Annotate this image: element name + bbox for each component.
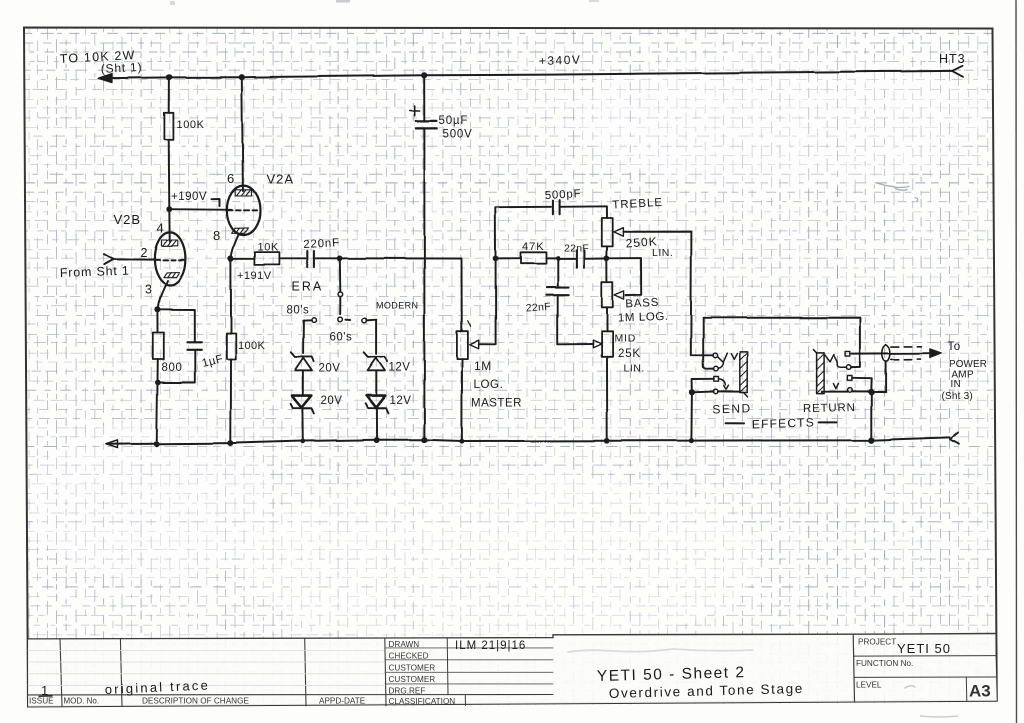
node mid ground — [604, 438, 610, 444]
tube V2B cathode scribble — [163, 272, 179, 277]
zener D2 bar — [291, 404, 314, 414]
send jack sq terminal — [714, 377, 719, 382]
svg-text:100K: 100K — [238, 340, 266, 352]
svg-text:CUSTOMER: CUSTOMER — [389, 664, 436, 673]
era switch pole line — [339, 297, 341, 314]
wire send ring feed — [703, 318, 713, 369]
svg-text:To: To — [948, 341, 961, 353]
svg-text:MID: MID — [615, 333, 637, 345]
tube V2B anode scribble — [162, 240, 178, 246]
svg-text:20V: 20V — [319, 363, 341, 375]
svg-text:CUSTOMER: CUSTOMER — [389, 675, 436, 684]
return jack ring terminal — [847, 365, 852, 370]
wire output sleeve down — [886, 361, 888, 391]
ground rail left arrow — [106, 440, 118, 448]
svg-text:100K: 100K — [177, 119, 205, 131]
capacitor 22nF shunt plates — [546, 287, 568, 295]
HT rail left arrow — [99, 74, 113, 83]
svg-text:RETURN: RETURN — [803, 402, 856, 415]
output jack plug — [883, 344, 891, 361]
zener D4 bar — [365, 404, 388, 414]
input chevron — [104, 254, 114, 265]
grid fade patches — [240, 470, 760, 650]
return jack bar tail — [813, 350, 816, 354]
era switch right terminal — [362, 318, 367, 323]
capacitor 220nF plates — [307, 251, 314, 267]
svg-text:DRAWN: DRAWN — [389, 640, 420, 649]
node return ground — [869, 388, 875, 394]
resistor 10K — [255, 252, 280, 264]
tube V2A grid dashes — [228, 209, 259, 211]
send jack ring hook — [718, 363, 723, 368]
svg-text:12V: 12V — [389, 362, 411, 374]
svg-text:MOD. No.: MOD. No. — [64, 697, 100, 706]
wire node to resistor 10K — [231, 257, 255, 259]
svg-text:8: 8 — [213, 228, 220, 243]
wire 1uF bottom loop — [158, 350, 194, 383]
wire input from Sht1 — [114, 258, 155, 260]
svg-text:500V: 500V — [443, 129, 473, 141]
tube V2B envelope — [154, 232, 185, 285]
wire return sq to ground node — [852, 378, 872, 392]
output arrow head — [930, 349, 942, 358]
wire send sleeve to bar — [718, 390, 740, 392]
resistor 100K cathode V2A — [226, 334, 235, 360]
wire D2 to ground — [301, 408, 303, 441]
svg-text:A3: A3 — [969, 682, 991, 701]
send jack sleeve terminal — [713, 389, 718, 394]
capacitor 50uF plus sign — [410, 106, 420, 116]
return jack ring hook — [838, 365, 847, 367]
190V pointer mark — [212, 199, 220, 206]
svg-text:MASTER: MASTER — [471, 398, 522, 410]
svg-text:6: 6 — [227, 171, 234, 186]
svg-text:+190V: +190V — [171, 191, 207, 203]
zener D1 triangle 20V — [295, 358, 312, 371]
wire 47K to 22nF — [546, 257, 576, 259]
tube V2B grid dashes — [155, 259, 185, 261]
resistor 100K anode V2B — [164, 112, 173, 139]
svg-text:V2B: V2B — [114, 212, 142, 227]
wire 50uF to ground — [423, 128, 425, 439]
svg-text:60's: 60's — [330, 332, 353, 344]
wire master pot top — [461, 259, 463, 332]
node ground 100K — [228, 440, 234, 446]
node 800-1uF bottom — [155, 380, 161, 386]
capacitor 22nF series plates — [577, 250, 585, 267]
svg-text:220nF: 220nF — [303, 237, 340, 251]
wire node to resistor 800 — [156, 309, 158, 332]
ground rail right arrow — [950, 433, 959, 444]
left table column dividers — [60, 638, 386, 706]
svg-text:POWER: POWER — [949, 359, 987, 370]
send jack arm V mark — [731, 354, 737, 360]
send jack body hatched bar — [740, 352, 747, 393]
tube V2A cathode scribble — [232, 228, 248, 233]
node cathode V2B — [154, 306, 160, 312]
capacitor 1uF plates — [187, 342, 201, 350]
mid wiper arrow — [593, 340, 602, 348]
effects dash right — [819, 421, 837, 423]
svg-text:LEVEL: LEVEL — [856, 681, 882, 690]
wire 10K to 220nF — [279, 257, 305, 259]
paper right edge line — [1015, 0, 1018, 723]
era switch centre dash — [345, 318, 350, 320]
wire D1-D2 — [302, 370, 304, 395]
svg-text:+340V: +340V — [539, 53, 582, 68]
svg-text:YETI 50: YETI 50 — [897, 641, 951, 656]
wire 100K cathode to ground — [230, 360, 232, 444]
drawn box row lines — [385, 648, 553, 684]
wire left throw to zeners — [303, 320, 311, 353]
node 190V junction — [166, 206, 172, 212]
potentiometer treble 250K body — [602, 218, 613, 246]
svg-text:ILM 21|9|16: ILM 21|9|16 — [455, 640, 526, 652]
wire D4 to ground — [375, 408, 377, 440]
wire send ground branch — [692, 379, 714, 393]
zener D3 triangle 12V — [368, 358, 385, 371]
zener D4 triangle 12V — [366, 396, 385, 408]
project row divider — [853, 655, 995, 658]
wire tone node down to bass pot — [606, 258, 608, 282]
white cover below bottom border — [24, 702, 1014, 723]
title block background — [28, 634, 997, 707]
treble wiper arrow — [614, 228, 624, 237]
svg-text:25K: 25K — [618, 348, 641, 360]
send jack sq switch arm — [719, 379, 726, 385]
return jack body hatched bar — [817, 353, 825, 394]
tube V2A envelope — [227, 186, 260, 235]
wire send sleeve stub — [692, 391, 714, 394]
wire tone node to bass loop — [607, 258, 642, 295]
svg-text:SEND: SEND — [712, 401, 752, 416]
wire V2A cathode down — [231, 235, 239, 259]
tube V2A anode scribble — [235, 190, 251, 196]
svg-text:BASS: BASS — [625, 297, 659, 311]
svg-text:IN: IN — [951, 379, 962, 390]
wire V2A plate from rail — [242, 77, 243, 191]
send jack bar tail — [744, 393, 748, 397]
potentiometer mid 25K body — [602, 331, 613, 357]
wire 22nF to tone node — [585, 257, 605, 259]
centre box right divider — [853, 634, 854, 702]
wire master wiper — [479, 259, 496, 344]
faint pencil scribble upper right — [877, 183, 918, 201]
A3 box divider — [965, 677, 968, 701]
svg-text:V2A: V2A — [267, 172, 295, 187]
wire bass to mid pot — [606, 307, 608, 331]
svg-text:CLASSIFICATION: CLASSIFICATION — [389, 697, 456, 706]
wire treble bottom — [606, 246, 608, 257]
svg-text:LIN.: LIN. — [624, 363, 645, 375]
drawn box value divider — [446, 638, 449, 695]
wire rail to resistor 100K — [168, 77, 170, 112]
node rail-50uF — [421, 72, 427, 78]
send jack v arrow — [724, 385, 729, 389]
wire to capacitor 1uF top — [157, 309, 194, 342]
wire return sleeve to jack — [852, 390, 886, 392]
left table label row line — [28, 694, 553, 696]
node zener right ground — [374, 437, 380, 443]
node 22nF shunt tap — [556, 256, 561, 261]
node rail-V2A — [239, 74, 245, 80]
wire 50uF from rail — [423, 75, 425, 121]
svg-text:(Sht 3): (Sht 3) — [942, 391, 973, 402]
svg-text:From Sht 1: From Sht 1 — [60, 264, 130, 280]
potentiometer master 1M body — [457, 331, 468, 358]
svg-text:4: 4 — [157, 221, 164, 236]
ground rail wire — [107, 437, 950, 444]
classification tick — [464, 696, 466, 706]
svg-text:LOG.: LOG. — [474, 379, 504, 391]
faint level scribble — [905, 686, 915, 688]
title block top line centre/right — [553, 634, 995, 638]
return jack tip terminal — [846, 351, 851, 356]
svg-text:22nF: 22nF — [564, 243, 589, 255]
svg-text:PROJECT: PROJECT — [858, 638, 896, 647]
bass wiper arrow — [615, 290, 625, 298]
capacitor 50uF plates — [416, 121, 437, 128]
svg-text:FUNCTION No.: FUNCTION No. — [856, 659, 913, 668]
svg-text:1M: 1M — [474, 359, 492, 373]
svg-text:500pF: 500pF — [545, 188, 582, 202]
era switch centre terminal — [338, 317, 343, 322]
svg-text:HT3: HT3 — [939, 52, 966, 66]
wire return tip to output — [852, 352, 931, 354]
node rail-100K — [166, 74, 172, 80]
zener D2 triangle 20V — [292, 396, 312, 408]
master pot top tick — [468, 321, 471, 326]
wire 220nF to master corner — [314, 257, 462, 259]
HT rail +340V wire — [112, 71, 953, 78]
svg-text:MODERN: MODERN — [376, 301, 418, 311]
svg-text:800: 800 — [162, 362, 183, 374]
node cathode V2A — [228, 255, 234, 261]
wire V2B plate — [168, 209, 170, 241]
node 50uF ground — [421, 437, 427, 443]
faint smudge top margin — [336, 0, 350, 3]
wire 500pF to treble top — [560, 206, 607, 218]
wire return sleeve bottom — [822, 392, 848, 394]
wire shunt 22nF drop — [557, 258, 559, 287]
wire node to V2A grid — [169, 208, 231, 211]
wire mid pot to ground — [606, 357, 608, 441]
svg-text:10K: 10K — [258, 242, 279, 254]
svg-text:22nF: 22nF — [525, 301, 551, 315]
HT rail right arrow HT3 — [952, 66, 963, 77]
faint stamp in centre box — [568, 649, 753, 652]
svg-text:47K: 47K — [522, 241, 545, 253]
svg-text:DESCRIPTION OF CHANGE: DESCRIPTION OF CHANGE — [142, 697, 249, 706]
output dashed line lower — [892, 358, 921, 360]
node effects ground left — [689, 438, 694, 443]
svg-text:ERA: ERA — [292, 280, 324, 294]
output dashed line upper — [892, 345, 922, 347]
wire shunt 22nF to mid pot — [558, 295, 593, 345]
node master ground — [459, 439, 464, 444]
svg-text:EFFECTS: EFFECTS — [752, 415, 816, 431]
svg-text:12V: 12V — [390, 395, 412, 407]
node ground 800 — [154, 441, 160, 447]
svg-text:APPD-DATE: APPD-DATE — [319, 697, 366, 706]
send jack tip switch arm — [718, 353, 728, 362]
send jack tip terminal — [713, 353, 718, 358]
wire send ground down — [690, 392, 693, 440]
faint mark bottom margin — [920, 716, 958, 717]
wire era switch drop — [339, 258, 342, 292]
svg-text:(Sht 1): (Sht 1) — [100, 60, 142, 76]
era switch common terminal — [338, 292, 343, 297]
zener D1 bar — [291, 352, 314, 361]
era switch left terminal — [311, 318, 316, 323]
node send ground — [689, 389, 695, 395]
svg-text:CHECKED: CHECKED — [389, 652, 429, 661]
svg-text:1M LOG.: 1M LOG. — [618, 311, 669, 325]
return jack sleeve terminal — [848, 388, 853, 393]
master wiper arrow — [470, 340, 479, 348]
svg-text:20V: 20V — [321, 395, 343, 407]
wire junction up to 500pF — [495, 207, 551, 259]
left table faint row lines — [28, 651, 384, 686]
return jack tip switch arm — [825, 355, 838, 365]
wire right throw to zeners — [367, 319, 377, 353]
node tone stack mid — [604, 255, 610, 261]
effects dash left — [726, 422, 744, 424]
wire return ground down — [871, 392, 873, 441]
return jack sq terminal — [847, 376, 852, 381]
wire 47K from junction — [496, 258, 521, 260]
wire V2B cathode down — [158, 281, 168, 309]
wire D3-D4 — [375, 370, 377, 395]
wire node to 100K cathode — [230, 258, 232, 333]
level row divider — [854, 676, 996, 678]
svg-text:LIN.: LIN. — [652, 247, 673, 259]
return jack v arrow — [833, 383, 838, 388]
wire 100K to node 190V — [168, 139, 171, 209]
resistor 47K — [521, 252, 547, 263]
node 47K-500pF junction — [493, 256, 499, 262]
white cover left of border — [0, 20, 27, 708]
resistor 800 — [153, 333, 164, 360]
node era switch tap — [337, 255, 343, 261]
svg-text:2: 2 — [141, 246, 148, 260]
svg-text:3: 3 — [145, 283, 152, 297]
svg-text:DRG.REF: DRG.REF — [389, 687, 426, 696]
wire 800 to ground — [157, 360, 158, 444]
node effects ground right — [869, 437, 875, 443]
potentiometer bass 1M body — [602, 282, 613, 308]
capacitor 500pF plates — [553, 200, 560, 214]
svg-text:+191V: +191V — [237, 270, 272, 282]
svg-text:50µF: 50µF — [439, 115, 469, 127]
wire master pot to ground — [461, 359, 463, 442]
node zener left ground — [300, 439, 305, 444]
wire long top link — [703, 318, 860, 368]
svg-text:80's: 80's — [287, 305, 310, 317]
wire treble wiper to effects — [623, 232, 713, 356]
zener D3 bar — [364, 352, 387, 361]
send jack ring terminal — [714, 366, 719, 371]
title block top line left table — [28, 638, 553, 639]
